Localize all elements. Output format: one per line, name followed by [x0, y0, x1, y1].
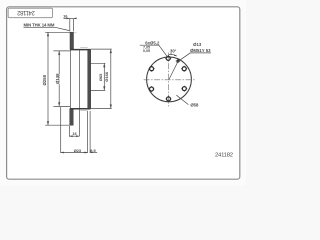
bolt hole upper right	[181, 66, 187, 72]
leader to top hole	[140, 45, 168, 57]
step bottom	[70, 108, 91, 110]
svg-text:Ø65: Ø65	[98, 73, 103, 81]
svg-text:6xØ5,2: 6xØ5,2	[145, 40, 160, 45]
dia258 bottom extension	[45, 124, 73, 126]
svg-text:Ø148: Ø148	[55, 73, 60, 84]
short right dim top extension	[88, 62, 105, 64]
chamfer line below bottom step	[80, 109, 87, 111]
disc face ext left	[87, 111, 89, 153]
pin hole ticks	[176, 60, 181, 62]
arrowheads hat depth dim	[69, 135, 72, 137]
svg-text:Ø23: Ø23	[74, 148, 82, 153]
bottom ext line from hat	[60, 107, 62, 153]
dia258 dimension line	[47, 32, 49, 125]
leader to pin hole	[177, 53, 211, 63]
bolt hole lower right	[181, 86, 187, 92]
8,9 dim lines	[90, 152, 97, 154]
section solid: ring upper bar	[70, 32, 74, 49]
arrowheads top thickness dim	[67, 18, 70, 20]
dia23 dim line	[61, 152, 88, 154]
arrowheads dia258	[47, 32, 49, 36]
min thk note underline and leader	[24, 27, 70, 30]
svg-text:8,9: 8,9	[90, 148, 96, 153]
top thickness left extension	[69, 19, 71, 31]
svg-text:ØM51Y 53: ØM51Y 53	[190, 48, 211, 53]
svg-text:Ø13: Ø13	[193, 42, 202, 47]
svg-text:30°: 30°	[170, 49, 177, 54]
horizontal centerline	[144, 79, 196, 81]
ring top face / dia258 top extension	[45, 31, 73, 33]
svg-text:241182: 241182	[16, 9, 34, 15]
bolt hole top	[165, 55, 171, 61]
vertical centerline	[168, 53, 170, 107]
svg-text:0,05: 0,05	[143, 49, 150, 53]
svg-text:Ø58: Ø58	[190, 103, 199, 108]
title box top-left	[8, 8, 52, 17]
bore vertical line extended	[78, 50, 80, 136]
drawing sheet frame	[7, 7, 240, 179]
radius line to pin hole	[169, 59, 179, 80]
svg-text:16: 16	[63, 13, 68, 18]
short right dim bottom extension	[88, 89, 105, 91]
arrowheads 8,9	[85, 152, 87, 153]
angle arc arrows	[169, 53, 172, 54]
disc face ext right	[89, 111, 91, 153]
tall right dim bottom extension	[91, 108, 112, 110]
hat face lower extension	[53, 105, 70, 107]
bolt hole bottom	[166, 96, 172, 102]
pin hole filled	[176, 59, 179, 62]
bolt hole lower left	[149, 86, 155, 92]
tall right dim top extension	[91, 48, 112, 50]
arrowheads hat dia	[58, 51, 60, 55]
svg-text:MIN THK 14 MM: MIN THK 14 MM	[24, 22, 55, 27]
chamfer line above step	[80, 47, 87, 49]
section solid: ring lower bar	[70, 109, 74, 125]
svg-text:Ø258: Ø258	[42, 74, 47, 85]
arrowheads dia23	[61, 152, 64, 154]
short right dimension line	[103, 63, 105, 90]
tall right dimension line	[110, 49, 112, 108]
section solid: disc right bar	[88, 50, 91, 108]
inner vertical line of section	[69, 50, 71, 108]
svg-text:Ø166: Ø166	[104, 71, 109, 82]
front view outer circle	[147, 57, 192, 102]
step top	[70, 49, 91, 51]
hat dia dimension line	[58, 51, 60, 107]
top thickness right extension	[72, 19, 74, 31]
chamfer stub top right of ring	[74, 32, 77, 34]
arrowheads short right dim	[103, 63, 105, 67]
bolt hole upper left	[149, 66, 155, 72]
angle dim arc	[169, 54, 177, 56]
top thickness dim line	[64, 17, 76, 19]
bottom ext line ring left	[68, 126, 70, 137]
hat face upper extension	[53, 50, 70, 52]
svg-text:241182: 241182	[215, 152, 233, 158]
leader to bore label	[176, 95, 188, 104]
arrowheads tall right dim	[110, 49, 112, 53]
hat depth dim line	[69, 135, 79, 137]
